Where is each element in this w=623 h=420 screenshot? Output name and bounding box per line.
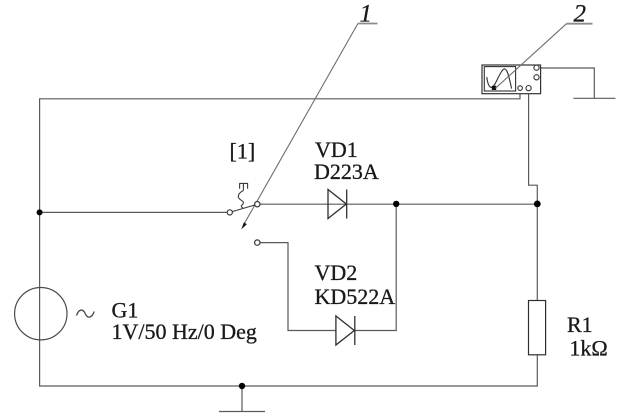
svg-text:D223A: D223A xyxy=(314,159,379,184)
svg-text:VD2: VD2 xyxy=(315,260,358,285)
svg-text:1: 1 xyxy=(360,1,373,28)
svg-text:R1: R1 xyxy=(567,312,593,337)
svg-text:KD522A: KD522A xyxy=(315,284,396,309)
svg-text:1V/50 Hz/0 Deg: 1V/50 Hz/0 Deg xyxy=(112,319,257,344)
svg-text:[1]: [1] xyxy=(230,138,256,163)
svg-text:1kΩ: 1kΩ xyxy=(569,335,607,360)
svg-text:2: 2 xyxy=(574,0,587,27)
